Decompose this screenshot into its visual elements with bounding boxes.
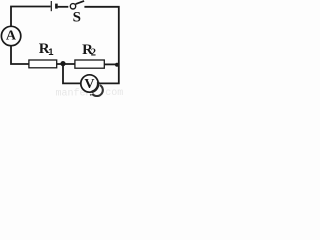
svg-text:S: S bbox=[73, 10, 81, 26]
svg-text:2: 2 bbox=[91, 47, 96, 58]
svg-text:V: V bbox=[84, 77, 94, 92]
svg-text:com: com bbox=[105, 88, 123, 97]
svg-text:1: 1 bbox=[48, 47, 54, 58]
svg-text:A: A bbox=[6, 29, 17, 44]
